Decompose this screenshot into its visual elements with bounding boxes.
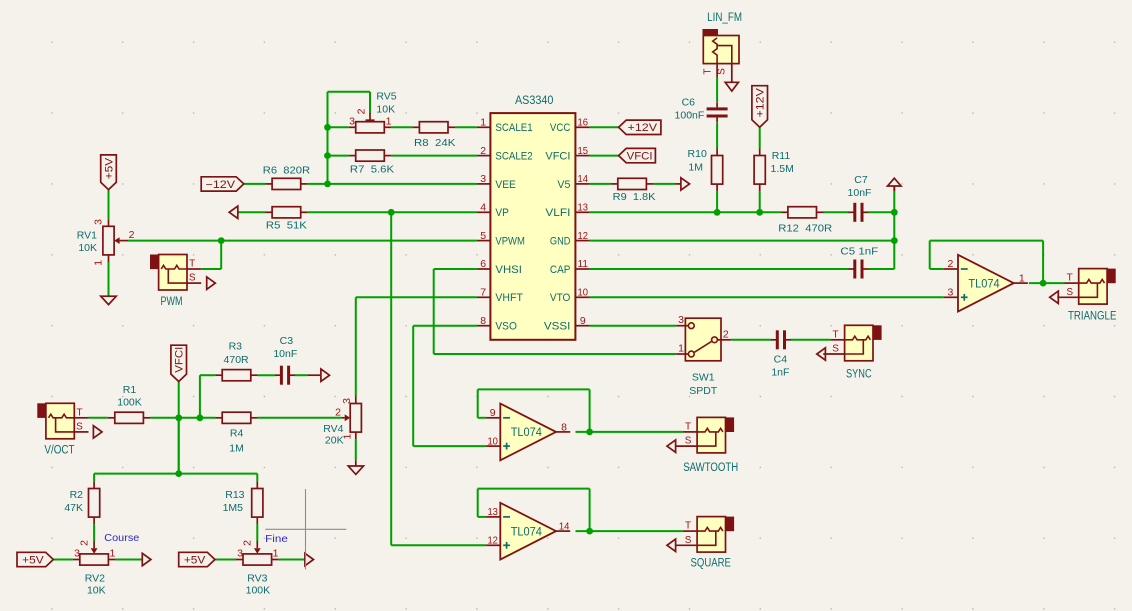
svg-text:2: 2	[79, 540, 91, 546]
svg-text:TL074: TL074	[511, 427, 543, 439]
RV3 open arrow	[305, 553, 314, 565]
svg-text:1: 1	[93, 260, 105, 266]
svg-text:+12V: +12V	[755, 87, 767, 117]
junction VP node	[388, 209, 395, 216]
svg-text:T: T	[189, 259, 195, 270]
svg-text:16: 16	[578, 117, 589, 129]
svg-text:R13: R13	[225, 489, 244, 501]
junction VFCI node A	[175, 414, 182, 421]
ground arrow below RV1	[101, 296, 116, 304]
op-amp U1A TL074 triangle buffer	[958, 255, 1014, 312]
V/OCT sleeve arrow	[93, 426, 102, 438]
svg-text:VSSI: VSSI	[544, 321, 571, 333]
svg-text:VFCI: VFCI	[627, 150, 653, 162]
svg-text:C6: C6	[682, 97, 696, 109]
wire -12V to R6	[244, 183, 265, 185]
svg-text:PWM: PWM	[161, 296, 183, 308]
jack J? SAWTOOTH	[676, 417, 734, 453]
svg-text:+5V: +5V	[22, 554, 44, 566]
wire LIN_FM T to C6	[716, 78, 718, 103]
C6 labels	[675, 97, 705, 122]
wire VFCI label down	[178, 382, 180, 474]
svg-text:1: 1	[480, 117, 486, 129]
svg-text:SAWTOOTH: SAWTOOTH	[683, 462, 738, 474]
wire +5V to RV1	[108, 189, 110, 219]
potentiometer RV2	[73, 554, 116, 565]
wire C3 to arrow lead	[295, 374, 308, 376]
power +12V tag above R11	[752, 86, 768, 128]
wire RV1 wiper to VPWM node	[128, 240, 221, 242]
wire +5V to RV3	[215, 559, 236, 561]
svg-text:2: 2	[480, 145, 486, 157]
svg-text:+5V: +5V	[184, 554, 206, 566]
wire RV5 pin1 to R8	[391, 126, 412, 128]
R1 labels	[117, 384, 142, 409]
potentiometer RV1	[103, 219, 114, 262]
wire IC pin16 to +12V label	[590, 126, 619, 128]
wire scale bus vertical	[327, 92, 329, 184]
IC U2 pin numbers	[480, 117, 588, 327]
RV1 value labels	[77, 229, 97, 254]
wire IC pin14 to R9	[590, 183, 611, 185]
svg-text:V/OCT: V/OCT	[44, 444, 74, 456]
svg-text:RV5: RV5	[376, 90, 396, 102]
svg-text:1nF: 1nF	[771, 366, 789, 378]
svg-text:2: 2	[947, 258, 953, 270]
svg-text:4: 4	[480, 202, 486, 214]
junction R11 node	[756, 209, 763, 216]
wire VHFT down to RV4 pin3	[355, 297, 357, 396]
IC U2 pin names	[495, 122, 570, 332]
svg-text:VLFI: VLFI	[545, 207, 570, 219]
svg-text:R10: R10	[688, 148, 707, 160]
svg-text:SYNC: SYNC	[846, 369, 872, 381]
power +5V top tag	[101, 155, 117, 190]
wire SW1 pin2 to C4	[731, 339, 771, 341]
SW1 pin numbers	[678, 314, 729, 354]
svg-text:100K: 100K	[246, 585, 271, 597]
wire scale bus top	[328, 91, 371, 93]
jack J? LIN_FM	[703, 29, 740, 78]
svg-text:10: 10	[578, 287, 589, 299]
svg-text:1: 1	[678, 343, 684, 355]
svg-text:10K: 10K	[87, 585, 106, 597]
resistor R11	[754, 149, 765, 192]
wire R7 to IC pin2	[391, 155, 477, 157]
resistor R9	[611, 178, 654, 189]
svg-text:LIN_FM: LIN_FM	[707, 12, 742, 24]
svg-text:1: 1	[109, 547, 115, 559]
resistor R5	[265, 207, 308, 218]
junction VLFI-C7 node	[891, 209, 898, 216]
svg-text:SW1: SW1	[692, 371, 715, 383]
svg-text:13: 13	[578, 202, 589, 214]
RV2 open arrow	[142, 553, 151, 565]
TRIANGLE sleeve arrow	[1050, 291, 1059, 303]
wire R12 to C7	[824, 211, 849, 213]
svg-text:7: 7	[480, 287, 486, 299]
svg-text:GND: GND	[550, 235, 571, 247]
svg-text:SCALE1: SCALE1	[495, 122, 532, 134]
wire R3 to C3	[258, 374, 276, 376]
wire R4 to RV4 wiper	[258, 417, 342, 419]
svg-text:14: 14	[559, 521, 570, 533]
LIN_FM pin letters	[702, 68, 727, 75]
wire IC pin10 VTO to opamp U1 pin3	[590, 296, 944, 298]
svg-text:TRIANGLE: TRIANGLE	[1068, 310, 1117, 322]
svg-text:RV4: RV4	[323, 423, 343, 435]
R4 labels	[229, 427, 244, 454]
wire VP node down to square opamp pin12	[390, 212, 392, 545]
wire IC pin9 VSSI to SW1 pin3	[590, 325, 677, 327]
wire coarse/fine distribution	[178, 418, 180, 474]
junction VEE node	[324, 181, 331, 188]
wire saw feedback	[589, 389, 591, 432]
svg-text:3: 3	[74, 547, 80, 559]
svg-text:SQUARE: SQUARE	[691, 557, 732, 569]
svg-text:R12 470R: R12 470R	[778, 223, 832, 235]
svg-text:T: T	[1067, 273, 1073, 284]
svg-text:8: 8	[480, 315, 486, 327]
svg-text:T: T	[833, 329, 839, 340]
svg-text:RV3: RV3	[247, 573, 267, 585]
svg-text:+12V: +12V	[628, 122, 658, 134]
wire RV2 pin1 to arrow	[115, 559, 142, 561]
svg-text:1: 1	[273, 547, 279, 559]
jack J? SYNC	[823, 325, 881, 361]
junction saw output node	[586, 429, 593, 436]
svg-text:VPWM: VPWM	[495, 235, 525, 247]
C7 labels	[848, 174, 872, 199]
svg-text:VHFT: VHFT	[495, 292, 523, 304]
R10 labels	[688, 148, 707, 174]
wire RV5 wiper drop	[369, 92, 371, 114]
wire R9 to arrow	[653, 183, 675, 185]
svg-text:2: 2	[242, 540, 254, 546]
capacitor C6	[707, 102, 728, 122]
wire VSO down to saw opamp pin10	[412, 326, 414, 446]
wire +5V to RV2	[53, 559, 73, 561]
svg-text:47K: 47K	[64, 502, 83, 514]
junction scale1 node	[324, 124, 331, 131]
svg-text:10nF: 10nF	[848, 187, 872, 199]
resistor R13	[252, 482, 263, 525]
power arrow up	[893, 186, 895, 191]
svg-text:R8 24K: R8 24K	[414, 137, 455, 149]
svg-text:8: 8	[561, 422, 567, 434]
potentiometer RV5	[349, 122, 392, 133]
wire VP arrow to R5	[238, 211, 265, 213]
jack J? PWM	[150, 255, 201, 291]
svg-text:S: S	[76, 422, 83, 433]
RV4 value labels	[323, 423, 343, 447]
cursor crosshair	[265, 489, 346, 570]
svg-text:RV2: RV2	[85, 573, 105, 585]
capacitor C3	[275, 366, 295, 385]
svg-text:1.5M: 1.5M	[771, 163, 794, 175]
svg-text:VCC: VCC	[550, 122, 571, 134]
resistor R10	[712, 149, 723, 192]
svg-text:10: 10	[487, 435, 498, 447]
svg-text:1: 1	[386, 116, 392, 128]
R9 open arrow	[681, 178, 690, 190]
junction VPWM node	[218, 237, 225, 244]
svg-text:C3: C3	[280, 335, 294, 347]
svg-text:Course: Course	[104, 532, 139, 544]
global label +5V fine	[179, 552, 215, 566]
jack J? V/OCT	[37, 403, 88, 439]
svg-text:CAP: CAP	[550, 264, 571, 276]
wire C5 right to node	[868, 268, 894, 270]
resistor R3	[215, 370, 258, 381]
svg-text:R3: R3	[229, 341, 243, 353]
svg-text:−12V: −12V	[206, 179, 236, 191]
potentiometer RV4	[350, 397, 361, 440]
svg-text:TL074: TL074	[511, 526, 543, 538]
wire square opamp output to SQUARE jack	[576, 530, 683, 532]
svg-text:T: T	[685, 521, 691, 532]
wire C6 to R10	[716, 122, 718, 148]
PWM sleeve arrow	[207, 277, 216, 289]
wire RV4 pin1 to ground arrow	[355, 439, 357, 460]
svg-text:12: 12	[487, 535, 498, 547]
wire PWM T up to VPWM node	[201, 268, 221, 270]
wire IC pin6 VHSI left	[434, 268, 477, 270]
resistor R7	[349, 150, 392, 161]
RV5 value labels	[376, 90, 396, 115]
resistor R1	[108, 412, 151, 423]
svg-text:1M5: 1M5	[223, 502, 244, 514]
RV3 value labels	[246, 573, 271, 597]
svg-text:9: 9	[490, 407, 496, 419]
global label +5V coarse	[17, 552, 53, 566]
wire RV1 pin1 to ground arrow	[108, 262, 110, 297]
potentiometer RV3	[236, 554, 279, 565]
svg-text:C5 1nF: C5 1nF	[840, 245, 878, 257]
SAWTOOTH sleeve arrow	[667, 440, 676, 452]
svg-text:3: 3	[678, 314, 684, 326]
svg-text:T: T	[685, 422, 691, 433]
svg-text:2: 2	[355, 108, 367, 114]
svg-text:5: 5	[480, 230, 486, 242]
global label +12V at VCC	[619, 120, 661, 134]
svg-text:9: 9	[580, 315, 586, 327]
capacitor C4	[771, 330, 791, 349]
wire branch up to R3	[199, 375, 201, 418]
wire R5 to IC pin4	[308, 211, 477, 213]
svg-text:SCALE2: SCALE2	[495, 150, 532, 162]
R11 labels	[771, 150, 794, 175]
wire R1 to R4 row	[150, 417, 215, 419]
wire VPWM node to IC pin5	[221, 240, 477, 242]
junction square output node	[586, 528, 593, 535]
svg-text:12: 12	[578, 230, 589, 242]
wire R8 to IC pin1	[455, 126, 477, 128]
junction triangle output node	[1040, 280, 1047, 287]
svg-text:3: 3	[349, 116, 355, 128]
svg-text:S: S	[685, 535, 692, 546]
SYNC sleeve arrow	[817, 348, 826, 360]
svg-text:100nF: 100nF	[675, 110, 705, 122]
R2 labels	[64, 489, 83, 514]
wire IC pin11 CAP to C5	[590, 268, 849, 270]
IC U2 AS3340	[477, 113, 590, 340]
C4 labels	[771, 354, 789, 379]
wire square feedback	[589, 489, 591, 531]
svg-text:14: 14	[578, 173, 589, 185]
junction coarse/fine node	[175, 470, 182, 477]
svg-text:470R: 470R	[224, 354, 250, 366]
wire IC pin15 to VFCI label	[590, 155, 619, 157]
resistor R4	[215, 412, 258, 423]
resistor R6	[265, 178, 308, 189]
svg-text:T: T	[702, 68, 713, 74]
wire U1 feedback	[1042, 241, 1044, 284]
jack J? SQUARE	[676, 517, 734, 553]
resistor R2	[89, 482, 100, 525]
svg-text:2: 2	[129, 229, 135, 241]
svg-text:VP: VP	[495, 207, 509, 219]
VP open arrow	[229, 206, 238, 218]
svg-text:3: 3	[480, 173, 486, 185]
global label VFCI at pin15	[619, 148, 656, 162]
wire RV3 pin1 to arrow	[279, 559, 305, 561]
global label VFCI vertical	[171, 345, 187, 381]
global label -12V	[201, 177, 244, 191]
capacitor C7	[849, 203, 869, 222]
svg-text:RV1: RV1	[77, 229, 97, 241]
svg-text:Fine: Fine	[265, 533, 288, 545]
svg-text:T: T	[76, 407, 82, 418]
svg-text:V5: V5	[557, 179, 570, 191]
svg-text:+5V: +5V	[103, 157, 115, 179]
wire IC pin8 VSO left	[413, 325, 477, 327]
wire saw opamp output to SAWTOOTH jack	[576, 431, 683, 433]
wire R11 to VLFI node	[759, 191, 761, 212]
wire IC pin7 VHFT left	[356, 296, 477, 298]
op-amp U1B TL074 sawtooth	[500, 404, 556, 461]
svg-text:3: 3	[947, 287, 953, 299]
svg-text:3: 3	[341, 398, 353, 404]
wire node to RV5 pin3	[328, 126, 349, 128]
resistor R8	[412, 122, 455, 133]
svg-text:S: S	[717, 68, 728, 75]
wire IC pin12 GND to node	[590, 240, 895, 242]
RV2 pin labels	[74, 540, 115, 559]
resistor R12	[781, 207, 824, 218]
wire R2 to RV2 wiper	[93, 524, 95, 541]
junction R3 branch node	[197, 414, 204, 421]
wire VHSI down to SW1 pin1	[433, 269, 435, 354]
svg-text:VEE: VEE	[495, 179, 516, 191]
svg-text:R1: R1	[123, 384, 137, 396]
svg-text:C7: C7	[854, 174, 868, 186]
svg-text:15: 15	[578, 145, 589, 157]
svg-text:R11: R11	[772, 150, 791, 162]
ground arrow below RV4	[348, 466, 363, 474]
C3 labels	[273, 335, 297, 360]
ground arrow below LIN_FM sleeve	[731, 73, 733, 82]
svg-text:VFCI: VFCI	[545, 150, 570, 162]
svg-text:20K: 20K	[325, 435, 344, 447]
wire R13 to RV3 wiper	[256, 524, 258, 541]
jack J? TRIANGLE	[1057, 269, 1115, 305]
wire R10 to VLFI node	[716, 191, 718, 212]
svg-text:S: S	[685, 436, 692, 447]
wire C4 to SYNC T	[790, 339, 830, 341]
wire VEE node to IC pin3	[328, 183, 477, 185]
RV1 pin labels	[93, 219, 135, 266]
svg-text:S: S	[832, 344, 839, 355]
RV3 pin labels	[237, 540, 279, 559]
svg-text:R5 51K: R5 51K	[266, 220, 307, 232]
R3 labels	[224, 341, 250, 366]
wire C7 to arrow node	[868, 211, 894, 213]
svg-text:R2: R2	[70, 489, 84, 501]
wire arrow node vertical	[893, 187, 895, 269]
svg-text:11: 11	[578, 258, 589, 270]
svg-text:VTO: VTO	[550, 292, 571, 304]
wire opamp U1 output to TRIANGLE jack	[1029, 282, 1065, 284]
svg-text:VHSI: VHSI	[495, 264, 522, 276]
C3 open arrow	[321, 369, 330, 381]
svg-text:S: S	[1066, 287, 1073, 298]
op-amp U1C TL074 square	[500, 503, 556, 560]
svg-text:TL074: TL074	[968, 278, 1000, 290]
svg-text:VSO: VSO	[495, 321, 517, 333]
junction scale2 node	[324, 152, 331, 159]
SQUARE sleeve arrow	[667, 539, 676, 551]
wire IC pin13 VLFI to R12	[590, 211, 781, 213]
svg-text:1: 1	[1019, 273, 1025, 285]
svg-text:C4: C4	[774, 354, 788, 366]
junction R10 node	[714, 209, 721, 216]
svg-text:10K: 10K	[78, 242, 97, 254]
svg-text:6: 6	[480, 258, 486, 270]
svg-text:R7 5.6K: R7 5.6K	[350, 163, 394, 175]
wire R6 to VEE node	[308, 183, 328, 185]
svg-text:R4: R4	[230, 427, 244, 439]
svg-text:2: 2	[723, 328, 729, 340]
svg-text:AS3340: AS3340	[515, 95, 554, 107]
svg-text:2: 2	[335, 406, 341, 418]
wire +12V label to R11	[759, 127, 761, 148]
wire node to R7	[328, 155, 349, 157]
svg-text:100K: 100K	[117, 396, 142, 408]
SW1 labels	[689, 371, 718, 397]
svg-text:10K: 10K	[376, 103, 395, 115]
svg-text:SPDT: SPDT	[689, 385, 718, 397]
svg-text:3: 3	[93, 219, 105, 225]
RV4 pin labels	[335, 398, 354, 440]
RV2 value labels	[85, 573, 106, 597]
svg-text:VFCI: VFCI	[174, 347, 186, 373]
capacitor C5	[849, 260, 869, 279]
svg-text:R9 1.8K: R9 1.8K	[613, 191, 656, 203]
svg-text:R6 820R: R6 820R	[263, 164, 311, 176]
svg-text:3: 3	[237, 547, 243, 559]
svg-text:10nF: 10nF	[273, 348, 297, 360]
RV5 pin labels	[349, 108, 392, 127]
wire V/OCT T to R1	[89, 417, 108, 419]
junction GND-C5 node	[891, 237, 898, 244]
R13 labels	[223, 489, 245, 514]
svg-text:13: 13	[487, 506, 498, 518]
switch SW1 SPDT	[676, 318, 731, 361]
svg-text:1M: 1M	[229, 442, 244, 454]
svg-text:1M: 1M	[688, 162, 703, 174]
svg-text:S: S	[189, 273, 196, 284]
